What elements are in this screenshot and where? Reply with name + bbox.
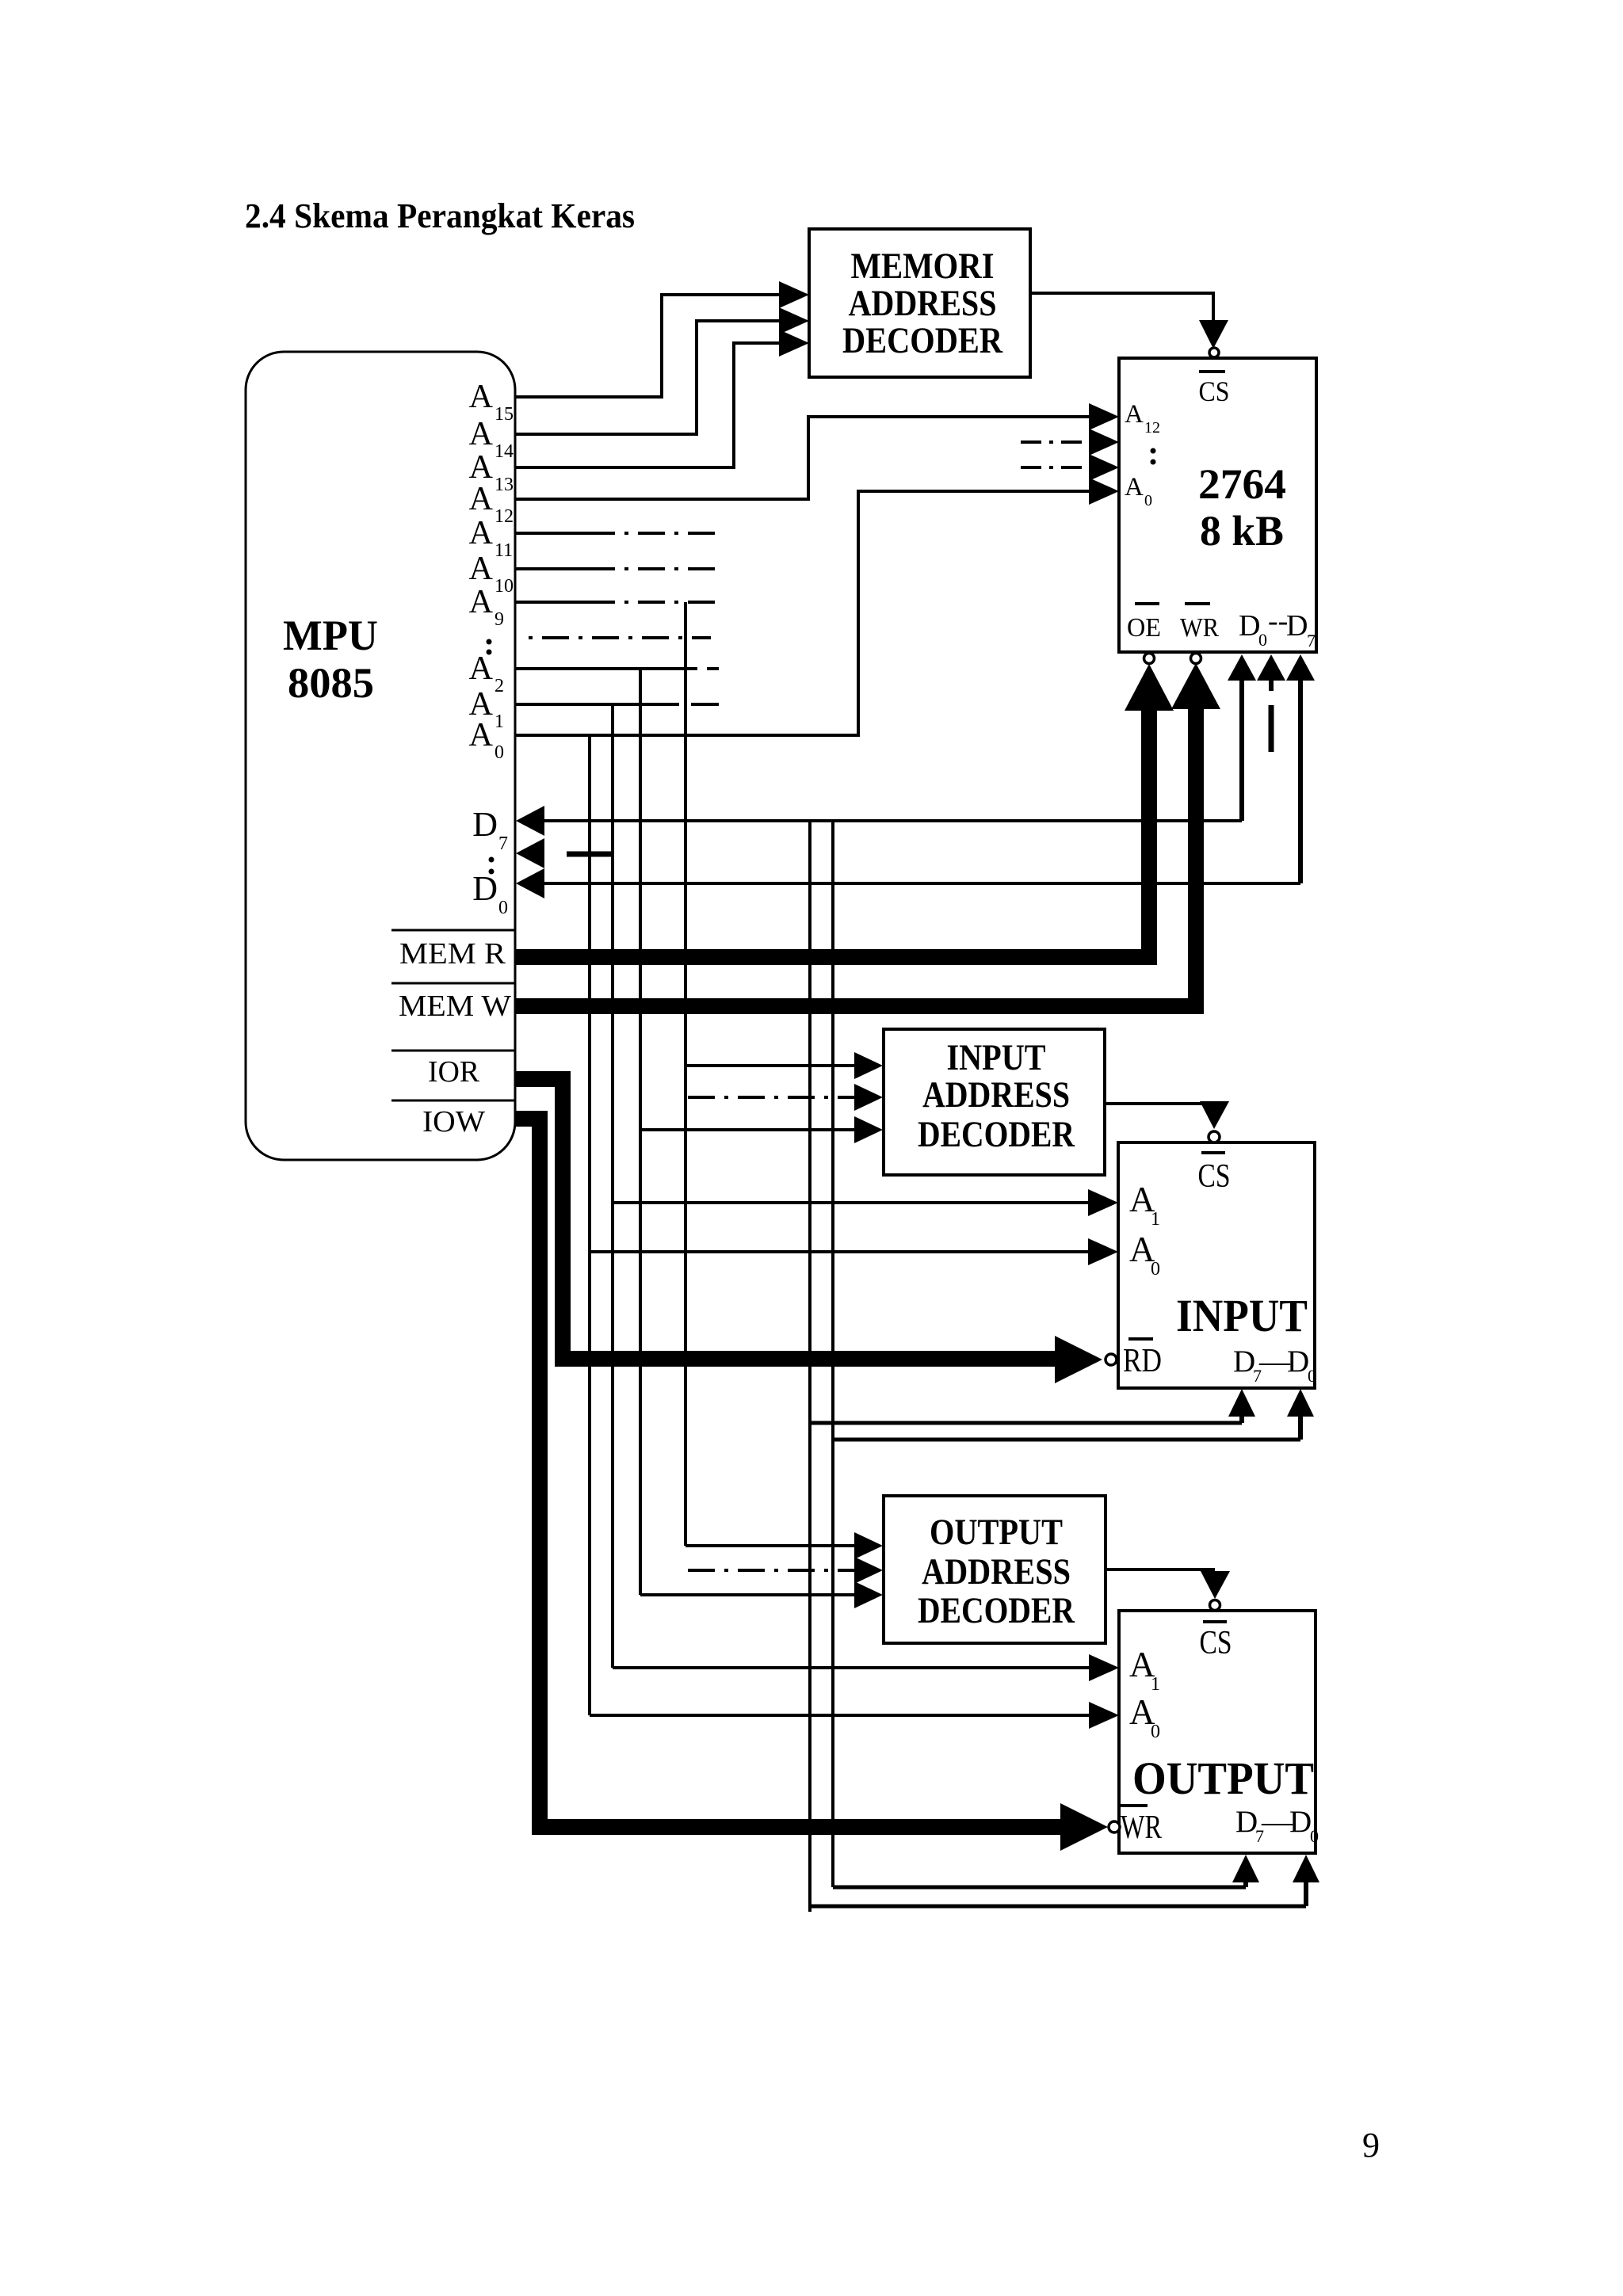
- INPUT D7 wire: [810, 1421, 1242, 1425]
- OE bubble: [1144, 654, 1155, 664]
- OUTPUT D0 wire: [810, 1905, 1306, 1909]
- svg-text:7: 7: [498, 833, 508, 854]
- svg-text:A: A: [1125, 400, 1144, 429]
- svg-text:D: D: [1286, 609, 1308, 643]
- data bus vertical left: [808, 821, 811, 1912]
- INPUT CS overline: [1201, 1151, 1225, 1154]
- svg-text:A: A: [469, 717, 494, 753]
- arrowhead output decoder 3: [854, 1581, 883, 1608]
- wire A0 into OUTPUT port: [590, 1714, 1089, 1717]
- OUTPUT D7 stem: [1243, 1882, 1248, 1887]
- svg-text:A: A: [1125, 473, 1144, 502]
- pin separator above MEM R: [391, 929, 515, 932]
- arrowhead D-mid into 2764: [1257, 654, 1285, 681]
- svg-text:MPU: MPU: [283, 612, 378, 659]
- output address decoder label: [918, 1512, 1075, 1631]
- INPUT D0 stem: [1298, 1417, 1303, 1440]
- pin label A12: [469, 481, 514, 527]
- svg-text:0: 0: [498, 898, 508, 918]
- vertical bus A1 branch: [611, 704, 614, 1668]
- svg-text:A: A: [469, 650, 494, 687]
- wire A9 stub: [515, 601, 588, 604]
- pin label A14: [469, 416, 514, 462]
- svg-text:2.4 Skema Perangkat Keras: 2.4 Skema Perangkat Keras: [245, 196, 635, 235]
- arrowhead D7 into OUTPUT: [1232, 1855, 1259, 1882]
- svg-text:0: 0: [495, 742, 504, 763]
- memory address decoder label: [842, 246, 1003, 361]
- OUTPUT WR overline: [1121, 1804, 1148, 1807]
- svg-text:WR: WR: [1121, 1810, 1162, 1846]
- dash-dot wire into input decoder 2: [688, 1096, 855, 1099]
- 2764 D7 stem: [1239, 681, 1244, 821]
- svg-text:A: A: [469, 481, 494, 517]
- svg-text:2764: 2764: [1198, 460, 1286, 508]
- svg-text:ADDRESS: ADDRESS: [922, 1074, 1070, 1116]
- wire into output decoder 3: [640, 1593, 855, 1596]
- INPUT pin label A0: [1129, 1230, 1160, 1280]
- svg-text:CS: CS: [1198, 1158, 1231, 1195]
- svg-text:A: A: [469, 584, 494, 620]
- 2764 D0--D7 label: [1239, 605, 1316, 650]
- pin label A11: [469, 515, 513, 561]
- svg-text:D: D: [1235, 1805, 1258, 1839]
- svg-text:MEM W: MEM W: [399, 990, 511, 1023]
- wire A2: [515, 667, 697, 670]
- IOR big arrowhead: [1055, 1336, 1102, 1383]
- arrowhead input decoder 1: [854, 1052, 883, 1079]
- OUTPUT CS overline: [1203, 1620, 1227, 1623]
- D0 bus line: [544, 882, 1300, 885]
- CS bubble OUTPUT: [1210, 1600, 1220, 1611]
- wire A1 end dash: [691, 703, 719, 706]
- svg-text:RD: RD: [1123, 1343, 1162, 1379]
- dash-dot bus wire into 2764 upper: [1021, 441, 1090, 444]
- vertical bus A0 branch: [588, 735, 591, 1715]
- svg-text:A: A: [469, 551, 494, 587]
- svg-text:0: 0: [1151, 1259, 1160, 1280]
- arrowhead bus lower into 2764: [1089, 454, 1119, 481]
- svg-text:OE: OE: [1127, 613, 1161, 643]
- arrowhead A13 into decoder: [779, 330, 809, 357]
- wire A9 dash-dot: [588, 601, 719, 604]
- svg-text:2: 2: [495, 676, 504, 696]
- 2764 WR overline: [1185, 602, 1210, 605]
- svg-text:WR: WR: [1180, 613, 1219, 643]
- svg-text:MEM R: MEM R: [399, 937, 506, 971]
- svg-text:INPUT: INPUT: [947, 1037, 1046, 1078]
- svg-text:DECODER: DECODER: [842, 320, 1003, 361]
- MPU U1 box: [246, 352, 515, 1160]
- dash-dot bus wire into 2764 lower: [1021, 466, 1090, 469]
- wire A2 end dash: [707, 667, 719, 670]
- pin label A2: [469, 650, 504, 696]
- 2764 pin label A0: [1125, 473, 1152, 509]
- svg-text:8 kB: 8 kB: [1200, 507, 1284, 555]
- svg-text:IOW: IOW: [422, 1105, 485, 1138]
- MEM W big arrowhead: [1171, 663, 1220, 709]
- INPUT D7-D0 label: [1233, 1344, 1316, 1386]
- ellipsis dots address pins: [487, 639, 492, 655]
- svg-text:9: 9: [1362, 2126, 1380, 2164]
- svg-text:DECODER: DECODER: [918, 1590, 1075, 1631]
- arrowhead D7 into INPUT: [1228, 1389, 1255, 1417]
- RD bubble: [1106, 1354, 1117, 1365]
- WR bubble 2764: [1191, 654, 1201, 664]
- memory address decoder box: [809, 229, 1030, 377]
- OUTPUT port box: [1119, 1611, 1316, 1853]
- OUTPUT pin label A1: [1129, 1645, 1160, 1695]
- arrowhead output decoder 1: [854, 1532, 883, 1559]
- 2764 D-mid stem: [1269, 681, 1274, 691]
- wire A1 into OUTPUT port: [613, 1666, 1089, 1669]
- 2764 D-mid vertical dash: [1269, 705, 1274, 752]
- MEM R big arrowhead: [1125, 664, 1174, 711]
- svg-text:7: 7: [1307, 631, 1316, 650]
- svg-text:ADDRESS: ADDRESS: [922, 1551, 1071, 1592]
- svg-text:CS: CS: [1199, 376, 1230, 407]
- INPUT port box: [1118, 1142, 1315, 1388]
- svg-text:0: 0: [1258, 630, 1267, 650]
- svg-text:IOR: IOR: [428, 1055, 480, 1089]
- CS wire input decoder to INPUT: [1105, 1102, 1214, 1105]
- IOW big arrowhead: [1060, 1803, 1108, 1851]
- pin label A1: [469, 686, 504, 732]
- CS down triangle 2764: [1199, 320, 1228, 349]
- svg-text:0: 0: [1310, 1826, 1319, 1846]
- svg-text:D: D: [472, 869, 498, 908]
- INPUT D0 wire: [833, 1438, 1300, 1442]
- svg-text:A: A: [469, 379, 494, 415]
- CS bubble INPUT: [1209, 1131, 1220, 1142]
- svg-text:13: 13: [495, 475, 514, 495]
- CS down triangle INPUT: [1200, 1101, 1229, 1129]
- IOR thick wire: [515, 1079, 1056, 1359]
- wire A0 to 2764: [515, 491, 1090, 735]
- arrowhead A14 into decoder: [779, 307, 809, 334]
- input address decoder label: [918, 1037, 1075, 1155]
- svg-text:MEMORI: MEMORI: [851, 246, 995, 287]
- INPUT D7 stem: [1239, 1416, 1244, 1423]
- svg-text:--: --: [1268, 605, 1288, 638]
- wire A11 stub: [515, 532, 588, 535]
- svg-text:0: 0: [1151, 1722, 1160, 1742]
- dash-dot ellipsis bus row: [529, 636, 711, 639]
- arrowhead D0 into INPUT: [1287, 1389, 1314, 1417]
- input address decoder box: [884, 1029, 1105, 1175]
- arrowhead A0 OUTPUT: [1089, 1702, 1119, 1729]
- CS wire output decoder to OUTPUT: [1106, 1568, 1215, 1571]
- arrowhead D0 into OUTPUT: [1293, 1855, 1319, 1882]
- svg-text:A: A: [469, 416, 494, 452]
- wire A13 to memory decoder: [515, 343, 781, 467]
- OUTPUT D0 stem: [1304, 1882, 1308, 1906]
- D-mid dash: [567, 852, 613, 857]
- arrowhead A12 into 2764: [1089, 403, 1119, 430]
- wire A12 to 2764: [515, 417, 1090, 499]
- 2764 D0 stem: [1298, 681, 1303, 883]
- pin label D7: [472, 805, 508, 854]
- wire into output decoder 1: [685, 1544, 855, 1547]
- 2764 CS overline: [1199, 370, 1225, 373]
- 2764 OE overline: [1135, 602, 1159, 605]
- arrowhead A15 into decoder: [779, 281, 809, 308]
- arrowhead D7 into MPU: [516, 806, 544, 836]
- arrowhead input decoder 3: [854, 1116, 883, 1143]
- EPROM 2764 box: [1119, 358, 1316, 652]
- INPUT pin label A1: [1129, 1180, 1160, 1230]
- svg-text:12: 12: [1144, 419, 1160, 437]
- arrowhead input decoder 2: [854, 1084, 883, 1111]
- arrowhead D0 into 2764: [1286, 654, 1315, 681]
- ellipsis dots data pins: [489, 857, 495, 875]
- arrowhead output decoder 2: [854, 1557, 883, 1584]
- svg-text:—: —: [1258, 1344, 1291, 1379]
- OUTPUT pin label A0: [1129, 1692, 1160, 1742]
- arrowhead A1 OUTPUT: [1089, 1654, 1119, 1681]
- pin separator between IOR and IOW: [391, 1100, 515, 1102]
- wire A1: [515, 703, 679, 706]
- D7 bus line: [544, 819, 1242, 822]
- svg-text:OUTPUT: OUTPUT: [1132, 1753, 1314, 1804]
- pin label A15: [469, 379, 514, 425]
- wire A0 into INPUT port: [590, 1250, 1089, 1253]
- svg-text:15: 15: [495, 404, 514, 425]
- INPUT RD overline: [1128, 1337, 1153, 1341]
- wire A14 to memory decoder: [515, 321, 781, 434]
- MEM W thick wire: [515, 709, 1196, 1006]
- OUTPUT D7-D0 label: [1235, 1805, 1319, 1846]
- WR bubble OUTPUT: [1109, 1821, 1120, 1833]
- OUTPUT D7 wire: [833, 1886, 1246, 1890]
- wire A1 into INPUT port: [613, 1201, 1089, 1204]
- pin label D0: [472, 869, 508, 918]
- vertical bus A9 branch: [684, 602, 687, 1546]
- pin label A13: [469, 449, 514, 495]
- arrowhead A0 INPUT: [1088, 1238, 1118, 1265]
- svg-text:D: D: [1233, 1344, 1255, 1379]
- pin separator between MEM R and MEM W: [391, 982, 515, 985]
- arrowhead D7 into 2764: [1228, 654, 1256, 681]
- svg-text:D: D: [472, 805, 498, 844]
- 2764 ellipsis dots: [1151, 448, 1156, 465]
- wire into input decoder 1: [685, 1064, 855, 1067]
- pin label A9: [469, 584, 504, 630]
- svg-text:14: 14: [495, 441, 514, 462]
- CS bubble 2764: [1209, 348, 1219, 357]
- pin label A10: [469, 551, 514, 597]
- svg-text:D: D: [1289, 1805, 1312, 1839]
- 2764 pin label A12: [1125, 400, 1160, 437]
- svg-text:9: 9: [495, 609, 504, 630]
- wire A11 dash-dot: [588, 532, 719, 535]
- svg-text:D: D: [1287, 1344, 1309, 1379]
- svg-text:1: 1: [495, 711, 504, 732]
- wire A10 dash-dot: [588, 567, 719, 570]
- svg-text:11: 11: [495, 540, 513, 561]
- svg-text:1: 1: [1151, 1209, 1160, 1230]
- svg-text:D: D: [1239, 609, 1260, 643]
- CS wire memory decoder to 2764: [1030, 293, 1213, 320]
- arrowhead A1 INPUT: [1088, 1189, 1118, 1216]
- output address decoder box: [884, 1496, 1106, 1643]
- arrowhead A0 into 2764: [1089, 478, 1119, 505]
- svg-text:OUTPUT: OUTPUT: [930, 1512, 1063, 1553]
- svg-text:ADDRESS: ADDRESS: [849, 283, 997, 324]
- svg-text:A: A: [469, 515, 494, 551]
- wire into input decoder 3: [640, 1128, 855, 1131]
- arrowhead D-mid into MPU: [516, 838, 544, 868]
- svg-text:10: 10: [495, 576, 514, 597]
- CS down triangle OUTPUT: [1201, 1571, 1230, 1599]
- wire A10 stub: [515, 567, 588, 570]
- svg-text:—: —: [1261, 1805, 1293, 1839]
- svg-text:12: 12: [495, 506, 514, 527]
- svg-text:8085: 8085: [288, 659, 374, 707]
- MEM R thick wire: [515, 711, 1149, 957]
- IOW thick wire: [515, 1119, 1061, 1827]
- svg-text:0: 0: [1308, 1366, 1316, 1386]
- dash-dot wire into output decoder 2: [688, 1569, 855, 1572]
- data bus vertical right: [831, 821, 834, 1887]
- pin label A0: [469, 717, 504, 763]
- vertical bus A2 branch: [639, 669, 642, 1595]
- arrowhead D0 into MPU: [516, 868, 544, 898]
- pin separator above IOR: [391, 1050, 515, 1052]
- svg-text:DECODER: DECODER: [918, 1114, 1075, 1155]
- arrowhead bus upper into 2764: [1089, 429, 1119, 456]
- wire A15 to memory decoder: [515, 295, 781, 397]
- svg-text:CS: CS: [1200, 1625, 1232, 1661]
- svg-text:0: 0: [1144, 492, 1152, 509]
- svg-text:INPUT: INPUT: [1176, 1290, 1308, 1341]
